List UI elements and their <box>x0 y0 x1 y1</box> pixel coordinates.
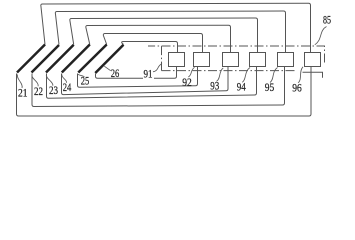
svg-text:25: 25 <box>81 75 90 87</box>
svg-text:26: 26 <box>111 68 120 80</box>
svg-text:91: 91 <box>144 68 153 80</box>
svg-text:95: 95 <box>265 82 275 94</box>
svg-text:21: 21 <box>18 88 28 100</box>
svg-text:23: 23 <box>49 85 58 97</box>
svg-text:93: 93 <box>210 81 219 93</box>
svg-text:92: 92 <box>182 77 192 89</box>
svg-text:24: 24 <box>63 82 72 94</box>
svg-text:96: 96 <box>292 82 302 94</box>
svg-text:85: 85 <box>323 15 331 27</box>
svg-text:22: 22 <box>34 86 43 98</box>
svg-text:94: 94 <box>237 82 246 94</box>
